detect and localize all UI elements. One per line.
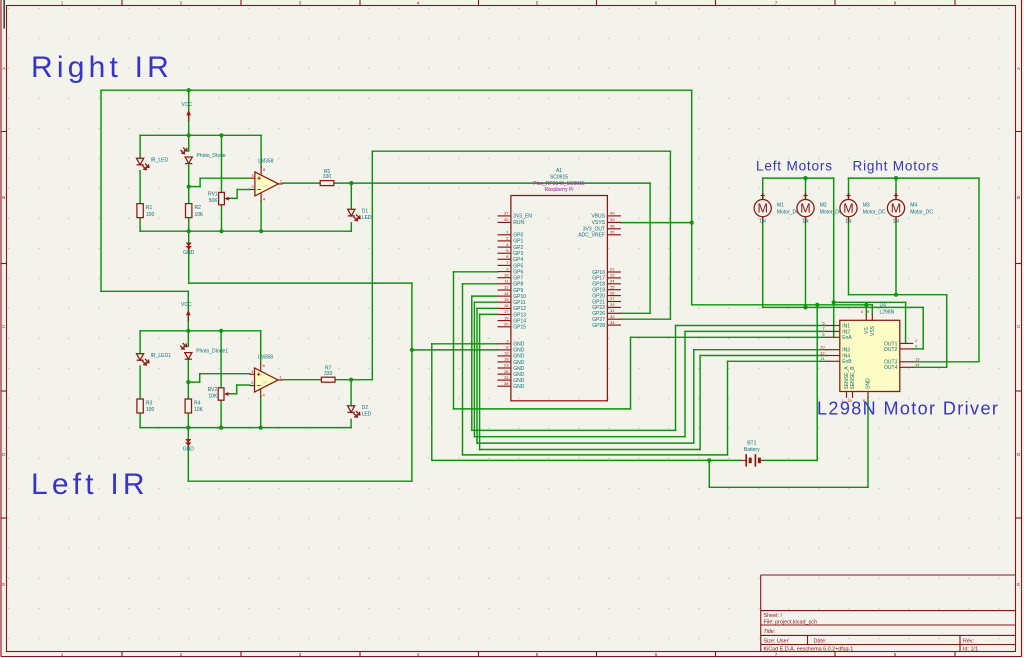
wire [139,171,141,204]
svg-text:LM358: LM358 [258,158,274,164]
svg-text:L298N Motor Driver: L298N Motor Driver [817,399,999,419]
wire GP11 to IN2 [474,301,497,303]
wire GND run [188,231,190,283]
resistor R4 10K [185,399,191,413]
wire [350,419,352,427]
svg-text:Photo_DIode1: Photo_DIode1 [196,349,228,355]
svg-text:Date:: Date: [814,638,827,644]
junction at 221.5,231.2 [219,229,223,233]
junction at 817.2,304.8 [815,303,819,307]
svg-text:6: 6 [655,1,658,6]
svg-text:IR_LED1: IR_LED1 [151,353,172,359]
svg-text:E: E [2,582,5,587]
wire [188,480,412,482]
svg-text:Left Motors: Left Motors [756,159,833,174]
svg-text:LED: LED [362,412,372,418]
svg-text:10: 10 [504,272,509,277]
wire rail feed to ENA [833,178,835,337]
svg-text:3: 3 [299,1,302,6]
svg-text:Left IR: Left IR [31,468,149,501]
svg-text:GP13: GP13 [513,312,526,318]
junction at 896.0,294.7 [894,293,898,297]
junction at 188.7,135.3 [187,133,191,137]
svg-text:M4: M4 [910,203,917,209]
resistor R2 10K [186,204,192,218]
wire [139,217,141,231]
wire to Left IR VCC [101,290,188,292]
svg-text:SC0915: SC0915 [550,174,568,180]
svg-text:14: 14 [915,362,920,367]
svg-text:12: 12 [504,285,509,290]
svg-text:GP6: GP6 [513,269,523,275]
wire opamp V+ [260,331,262,363]
junction at 805.5,178.1 [803,176,807,180]
svg-text:12: 12 [820,350,825,355]
driver U4 L298N [840,320,900,391]
wire [848,178,850,200]
svg-text:L298N: L298N [880,309,895,315]
svg-text:GP4: GP4 [513,257,523,263]
svg-text:GP5: GP5 [513,263,523,269]
svg-text:37: 37 [504,211,509,216]
svg-text:File: project.kicad_sch: File: project.kicad_sch [764,619,817,625]
wire M3/M4 minus to OUT4 [848,216,850,294]
svg-text:B: B [1017,195,1020,200]
svg-text:GP14: GP14 [513,318,526,324]
svg-text:24: 24 [610,279,615,284]
resistor R7 330 [321,377,335,382]
svg-text:13: 13 [915,357,920,362]
wire [350,183,352,209]
svg-text:Title:: Title: [764,629,776,635]
wire branch to OUT1 [834,301,906,303]
svg-text:10K: 10K [194,407,204,413]
svg-text:BT1: BT1 [747,441,756,447]
svg-text:8: 8 [894,652,897,657]
svg-text:R1: R1 [146,205,153,211]
wire M1/M2 minus to OUT2 [762,216,764,307]
svg-text:2: 2 [180,1,183,6]
svg-text:M: M [891,202,901,216]
svg-text:22: 22 [610,273,615,278]
svg-text:Pico_RP2040_SC0915: Pico_RP2040_SC0915 [533,181,585,187]
wire [221,135,223,192]
svg-text:31: 31 [610,308,615,313]
LED D1 [348,209,355,216]
junction at 260.7,427.6 [259,426,263,430]
svg-text:GP0: GP0 [513,233,523,239]
svg-text:17: 17 [504,309,509,314]
svg-text:40: 40 [610,211,615,216]
wire Left IR rail [140,330,261,332]
svg-text:Rev:: Rev: [963,638,974,644]
svg-text:5: 5 [536,1,539,6]
wire [139,331,141,354]
svg-text:3V3_EN: 3V3_EN [513,214,532,220]
wire GP6 to ENA [454,271,498,273]
junction at 188.7,186.6 [187,185,191,189]
pico right pins [607,215,621,217]
junction at 691.7,222.6 [690,221,694,225]
svg-text:R3: R3 [146,401,153,407]
wire battery plus [764,459,818,461]
svg-text:25: 25 [610,284,615,289]
svg-text:M: M [757,202,767,216]
svg-text:EnA: EnA [842,335,852,341]
wire Right IR rail [140,134,261,136]
svg-text:1: 1 [61,652,64,657]
svg-text:330: 330 [323,174,332,180]
ground GND (right IR) [186,243,192,247]
svg-text:RV1: RV1 [208,191,218,197]
svg-text:Battery: Battery [744,447,760,453]
wire battery minus to L298N GND [708,460,710,487]
svg-text:29: 29 [610,302,615,307]
svg-text:GP3: GP3 [513,251,523,257]
svg-text:RUN: RUN [513,220,524,226]
svg-text:20: 20 [504,321,509,326]
svg-text:U4: U4 [880,302,887,308]
wire [187,331,189,347]
svg-text:D1: D1 [362,209,369,215]
svg-text:GP28: GP28 [592,323,605,329]
svg-text:4: 4 [417,1,420,6]
photodiode Photo_DIode1 [185,353,192,360]
wire GP12 to IN3 [477,307,498,309]
wire R7 to GP27 (up and over) [335,379,373,381]
svg-text:GP11: GP11 [513,300,526,306]
svg-text:GP1: GP1 [513,239,523,245]
junction at 411.9,349.9 [410,348,414,352]
svg-text:28: 28 [504,369,509,374]
motor M4 [887,200,904,217]
potentiometer RV2 [218,388,224,400]
wire pico GND to battery [432,343,498,345]
svg-text:10K: 10K [195,212,205,218]
svg-text:VBUS: VBUS [591,214,605,220]
svg-text:33: 33 [504,375,509,380]
svg-text:GP12: GP12 [513,306,526,312]
wire [139,412,141,427]
motor M2 [797,200,814,217]
svg-text:1N: 1N [845,218,852,224]
junction at 221.5,135.3 [219,133,223,137]
wire [187,428,189,482]
wire opamp V- [260,201,262,231]
svg-text:RV2: RV2 [208,387,218,393]
wire [805,178,807,200]
junction at 896.0,178.1 [894,176,898,180]
motor M3 [840,200,857,217]
svg-text:GND: GND [183,447,195,453]
svg-text:Right Motors: Right Motors [853,159,940,174]
svg-text:IR_LED: IR_LED [151,157,169,163]
svg-text:Sheet: /: Sheet: / [764,613,783,619]
junction at 709.3,460.4 [707,458,711,462]
wire [188,135,190,151]
svg-text:19: 19 [504,315,509,320]
wire VBUS left drop [100,90,102,291]
svg-text:GP2: GP2 [513,245,523,251]
svg-text:Motor_DC: Motor_DC [910,209,933,215]
svg-text:M: M [843,202,853,216]
svg-text:23: 23 [504,363,509,368]
wire [139,366,141,399]
wire GP10 to IN1 [472,295,498,297]
wire R5 to GP26 [334,182,650,184]
svg-text:GP7: GP7 [513,276,523,282]
wire opamp V+ [260,135,262,167]
svg-text:7: 7 [775,652,778,657]
resistor R5 330 [320,181,334,186]
svg-text:26: 26 [610,290,615,295]
svg-text:1: 1 [61,1,64,6]
svg-text:B: B [2,195,5,200]
wire [895,178,897,200]
svg-text:34: 34 [610,320,615,325]
svg-text:LED: LED [362,215,372,221]
svg-text:27: 27 [610,296,615,301]
svg-text:R2: R2 [195,205,202,211]
wire [188,165,190,203]
svg-text:GP9: GP9 [513,288,523,294]
svg-text:GND: GND [183,250,195,256]
svg-text:100: 100 [146,407,155,413]
wire [187,412,189,427]
svg-text:SENSE_B: SENSE_B [850,366,856,390]
junction at 188.3,427.6 [186,426,190,430]
svg-text:32: 32 [610,314,615,319]
svg-text:7: 7 [775,1,778,6]
svg-text:VCC: VCC [181,102,192,108]
svg-text:OUT4: OUT4 [884,365,898,371]
svg-text:GP15: GP15 [513,325,526,331]
svg-text:EnB: EnB [842,359,852,365]
photodiode Photo_DIode [185,157,192,164]
mcu A1 Raspberry Pi Pico [511,196,608,401]
pico left pins [498,215,511,217]
svg-text:Photo_DIode: Photo_DIode [197,153,226,159]
svg-text:38: 38 [504,381,509,386]
wire pico GND pin link [412,349,498,351]
wire [762,178,764,200]
wire right motors rail [849,177,980,179]
op-amp LM358 (left) [255,368,279,392]
svg-text:16: 16 [504,303,509,308]
wire Left IR bottom rail [140,427,351,429]
resistor R1 100 [137,204,143,218]
wire opamp plus input [188,381,199,383]
wire pot wiper to minus input [230,197,237,199]
junction at 351.1,379.7 [349,378,353,382]
svg-text:21: 21 [610,267,615,272]
svg-text:VSS: VSS [870,325,876,336]
svg-text:3: 3 [299,652,302,657]
wire [350,380,352,406]
svg-text:2: 2 [180,652,183,657]
wire VBUS top rail [101,89,692,91]
ground GND (left IR) [185,439,191,443]
svg-text:10: 10 [820,345,825,350]
svg-text:6: 6 [655,652,658,657]
svg-text:1N: 1N [759,218,766,224]
junction at 261.1,231.2 [259,229,263,233]
svg-text:M2: M2 [820,203,827,209]
svg-text:5: 5 [536,652,539,657]
svg-text:10K: 10K [208,393,218,399]
junction at 188.3,330.8 [186,329,190,333]
LED IR_LED [137,158,144,165]
svg-text:R4: R4 [194,401,201,407]
wire rail feed to OUT3 [978,178,980,362]
svg-text:Motor_DC: Motor_DC [820,209,843,215]
svg-text:330: 330 [324,371,333,377]
svg-text:GP10: GP10 [513,294,526,300]
junction at 188.7,231.2 [187,229,191,233]
potentiometer RV1 [219,192,225,204]
svg-text:VCC: VCC [181,302,192,308]
svg-text:Raspberry Pi: Raspberry Pi [545,187,574,193]
wire [220,400,222,427]
svg-text:4: 4 [417,652,420,657]
leftover UI artifact line [3,0,5,29]
wire to L298N VS/VSS [692,304,873,306]
wire [139,135,141,158]
wire VCC leg left circuit [187,291,189,331]
junction at 805.5,307.4 [803,305,807,309]
svg-text:13: 13 [504,351,509,356]
wire pot wiper to minus input [229,393,236,395]
svg-text:ADC_VREF: ADC_VREF [578,233,605,239]
svg-text:Id: 1/1: Id: 1/1 [963,647,978,653]
svg-text:1N: 1N [802,218,809,224]
resistor R3 100 [137,399,143,413]
wire left motors rail [763,177,834,179]
svg-text:KiCad E.D.A. eeschema 6.0.2+d: KiCad E.D.A. eeschema 6.0.2+dfsg-1 [764,647,854,653]
wire GP13 to IN4 [480,313,498,315]
svg-text:OUT2: OUT2 [884,347,898,353]
svg-text:Right IR: Right IR [31,51,173,84]
svg-text:8: 8 [894,1,897,6]
svg-text:100: 100 [146,212,155,218]
wire [188,217,190,231]
svg-text:A1: A1 [556,168,562,174]
wire [221,205,223,231]
junction at 221.1,330.8 [219,329,223,333]
LED IR_LED1 [137,354,144,361]
svg-text:36: 36 [610,224,615,229]
title block [761,575,1016,652]
svg-text:18: 18 [504,357,509,362]
svg-text:M3: M3 [863,203,870,209]
junction at 188.3,382.1 [186,380,190,384]
junction at 188.7,90.2 [187,88,191,92]
wire opamp output to R7 [282,379,322,381]
svg-text:35: 35 [610,230,615,235]
wire VCC leg right circuit [188,90,190,135]
svg-text:VSYS: VSYS [592,220,606,226]
wire [350,223,352,231]
wire VBUS drop right [691,90,693,305]
svg-text:1N: 1N [893,218,900,224]
svg-text:14: 14 [504,291,509,296]
junction at 351.3,183.1 [349,181,353,185]
junction at 833.7,302.3 [832,300,836,304]
svg-text:D2: D2 [362,405,369,411]
svg-text:E: E [1017,582,1020,587]
svg-text:GND: GND [866,378,872,390]
wire Right IR bottom rail [140,230,351,232]
svg-text:39: 39 [610,217,615,222]
wire opamp V- [260,397,262,428]
op-amp LM358 (right) [255,172,279,196]
svg-text:GP8: GP8 [513,282,523,288]
wire VSYS pin [621,222,692,224]
svg-text:15: 15 [504,297,509,302]
svg-text:Motor_DC: Motor_DC [863,209,886,215]
battery BT1 [740,454,763,466]
svg-text:Size: User: Size: User [764,638,789,644]
svg-text:50K: 50K [209,198,219,204]
svg-text:GND: GND [513,384,525,390]
svg-text:30: 30 [504,217,509,222]
junction at 866.3,304.8 [864,303,868,307]
svg-text:M1: M1 [777,203,784,209]
svg-text:LM358: LM358 [258,354,274,360]
wire opamp plus input [189,186,200,188]
svg-text:M: M [800,202,810,216]
wire [187,361,189,399]
wire opamp output to R5 [283,182,320,184]
junction at 221.1,427.6 [219,426,223,430]
LED D2 [348,406,355,413]
wire GP8 to ENB [463,283,498,285]
wire [220,331,222,388]
motor M1 [754,200,771,217]
